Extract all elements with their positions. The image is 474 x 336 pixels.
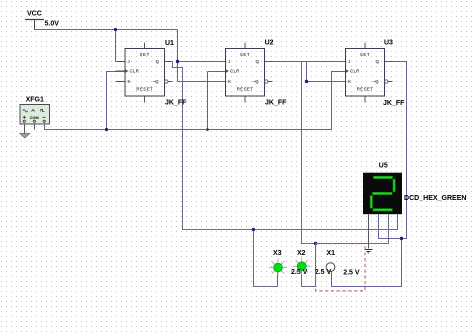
svg-text:2.5 V: 2.5 V [343, 270, 360, 277]
svg-text:SET: SET [360, 52, 370, 57]
svg-text:K: K [128, 79, 131, 84]
svg-text:J: J [348, 59, 350, 64]
svg-text:2.5 V: 2.5 V [291, 269, 308, 276]
svg-text:U3: U3 [384, 40, 393, 47]
svg-text:XFG1: XFG1 [26, 97, 44, 104]
svg-text:COM: COM [30, 116, 39, 120]
svg-text:VCC: VCC [27, 11, 42, 18]
svg-text:U5: U5 [379, 163, 388, 170]
svg-text:Q: Q [376, 59, 380, 64]
svg-text:RESET: RESET [237, 87, 254, 92]
svg-text:RESET: RESET [136, 87, 153, 92]
svg-text:~Q: ~Q [253, 79, 260, 84]
svg-text:JK_FF: JK_FF [265, 100, 287, 107]
svg-text:J: J [128, 59, 130, 64]
svg-text:K: K [348, 79, 351, 84]
svg-text:DCD_HEX_GREEN: DCD_HEX_GREEN [404, 195, 467, 202]
svg-text:CLR: CLR [130, 69, 140, 74]
svg-text:X3: X3 [273, 250, 282, 257]
svg-text:~Q: ~Q [373, 79, 380, 84]
svg-text:Q: Q [156, 59, 160, 64]
svg-text:CLR: CLR [350, 69, 360, 74]
svg-text:X2: X2 [297, 250, 306, 257]
svg-text:K: K [228, 79, 231, 84]
svg-text:X1: X1 [327, 250, 336, 257]
svg-text:SET: SET [140, 52, 150, 57]
svg-text:JK_FF: JK_FF [165, 100, 187, 107]
svg-text:RESET: RESET [357, 87, 374, 92]
svg-text:JK_FF: JK_FF [383, 100, 405, 107]
svg-text:J: J [228, 59, 230, 64]
svg-text:U2: U2 [265, 40, 274, 47]
svg-text:5.0V: 5.0V [45, 21, 60, 28]
svg-text:2.5 V: 2.5 V [315, 269, 332, 276]
svg-text:SET: SET [240, 52, 250, 57]
svg-text:U1: U1 [165, 40, 174, 47]
svg-text:Q: Q [256, 59, 260, 64]
svg-text:~Q: ~Q [153, 79, 160, 84]
svg-text:CLR: CLR [230, 69, 240, 74]
